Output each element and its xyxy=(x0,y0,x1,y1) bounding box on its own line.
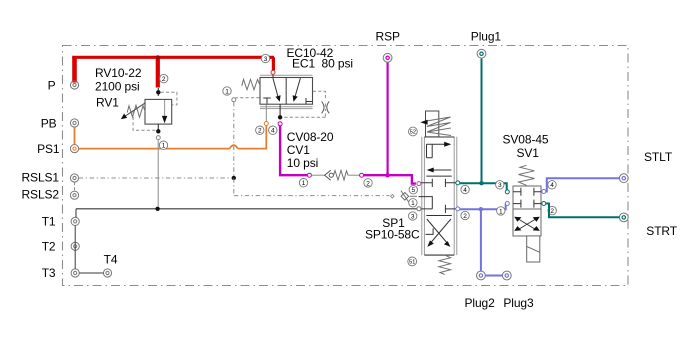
pin 5 of SP1 xyxy=(409,186,417,195)
svg-text:T3: T3 xyxy=(42,266,56,280)
port PB xyxy=(70,119,78,127)
svg-text:Plug1: Plug1 xyxy=(471,29,502,43)
svg-text:1: 1 xyxy=(162,143,166,150)
SP1 pilot cap and spring (top) xyxy=(420,111,451,137)
svg-text:RV1: RV1 xyxy=(96,96,119,110)
SP1 middle position: blocked 5,4,2 and 1-3 path xyxy=(417,179,457,213)
svg-text:2: 2 xyxy=(162,76,166,83)
pin 4 of SP1 xyxy=(461,185,469,194)
wire: RV1 drain to tank xyxy=(157,140,159,207)
svg-text:T2: T2 xyxy=(42,240,56,254)
pin 2 of SP1 xyxy=(461,211,469,220)
node: purple junction xyxy=(479,207,483,211)
port STLT xyxy=(619,174,628,183)
svg-text:SV08-45: SV08-45 xyxy=(503,132,549,146)
svg-text:Plug3: Plug3 xyxy=(503,296,534,310)
SP1 port markers xyxy=(417,181,460,211)
wire: magenta CV1 port2 to SP1 port 5 xyxy=(364,175,416,183)
port T1 xyxy=(71,217,79,225)
svg-text:SP10-58C: SP10-58C xyxy=(365,227,420,241)
node: tank junction at RV1 drain xyxy=(155,207,159,211)
svg-text:3: 3 xyxy=(498,182,502,189)
label RV1 values xyxy=(95,66,142,110)
port RSLS2 xyxy=(70,191,78,199)
SP1 top position: crossover arrows xyxy=(427,142,452,173)
svg-text:2: 2 xyxy=(463,213,467,220)
svg-text:2100 psi: 2100 psi xyxy=(95,79,140,93)
relief valve RV1 xyxy=(121,88,177,140)
port T4 xyxy=(103,269,111,277)
wire: magenta EC1 port 4 to CV1 xyxy=(280,126,307,175)
node: small diamond marker on pilot line xyxy=(391,195,395,199)
label SV1 xyxy=(503,132,549,160)
solenoid valve SV1 (SV08-45) xyxy=(505,165,546,262)
svg-text:1: 1 xyxy=(302,180,306,187)
node: red bus junction at RV1 drop xyxy=(156,55,160,59)
svg-text:3: 3 xyxy=(264,56,268,63)
svg-text:RSP: RSP xyxy=(376,29,400,43)
svg-text:Plug2: Plug2 xyxy=(465,296,496,310)
svg-text:51: 51 xyxy=(409,260,415,266)
svg-text:4: 4 xyxy=(550,182,554,189)
port RSLS1 xyxy=(70,174,78,182)
svg-text:5: 5 xyxy=(411,187,415,194)
wire: pilot line to SP1 port 1 (dashed) xyxy=(234,195,390,197)
wire: teal Plug1 drop xyxy=(481,59,483,184)
SP1 bottom position: crossed arrows xyxy=(426,219,451,247)
port PS1 xyxy=(70,145,78,153)
wire: purple Plug2 riser xyxy=(480,209,482,271)
svg-text:2: 2 xyxy=(258,128,262,135)
svg-text:2: 2 xyxy=(550,208,554,215)
svg-text:EC1 80 psi: EC1 80 psi xyxy=(292,56,353,70)
manifold boundary (dash-dot border) xyxy=(63,46,629,286)
wire: purple SV1 port 4 to STLT xyxy=(546,178,620,191)
wire: RSLS1 pilot line (dashed) to junction xyxy=(79,177,232,179)
port T3 xyxy=(71,269,79,277)
check valve CV1 (CV08-20) xyxy=(307,170,363,180)
port Plug1 xyxy=(477,49,486,58)
wire: magenta RSP drop xyxy=(387,63,389,176)
svg-text:RSLS2: RSLS2 xyxy=(21,187,59,201)
wire: teal SV1 port 2 to STRT xyxy=(546,204,620,218)
svg-text:PB: PB xyxy=(41,116,57,130)
wire: RSLS1 to RSLS2 stub (dashed) xyxy=(74,182,76,191)
svg-text:1: 1 xyxy=(499,208,503,215)
pin 2 of SV1 xyxy=(548,206,556,215)
port T2 xyxy=(71,242,79,250)
node: pilot junction RSLS1 / EC1 pilot xyxy=(232,176,236,180)
spool valve SP1 (SP10-58C) body rails xyxy=(422,137,457,255)
node: magenta junction at RSP xyxy=(385,173,390,178)
pin 3 of SV1 xyxy=(496,181,504,190)
pin 2 of EC1 xyxy=(256,126,264,135)
pin 1 of SP1 xyxy=(409,199,417,208)
svg-text:52: 52 xyxy=(410,130,416,136)
label EC1 values xyxy=(287,46,353,70)
svg-text:SV1: SV1 xyxy=(517,146,540,160)
wire: teal SP1 port 4 to SV1 port 3 xyxy=(460,183,507,190)
pin 1 of CV1 xyxy=(299,179,307,188)
svg-text:RSLS1: RSLS1 xyxy=(21,170,59,184)
svg-text:CV1: CV1 xyxy=(287,143,310,157)
svg-text:10 psi: 10 psi xyxy=(287,156,318,170)
svg-text:T4: T4 xyxy=(104,253,118,267)
svg-text:RV10-22: RV10-22 xyxy=(95,66,142,80)
pin 3 of SP1 xyxy=(409,212,417,221)
svg-text:PS1: PS1 xyxy=(37,142,60,156)
wire: orange PB to PS1 xyxy=(74,127,76,144)
pin 52 of SP1 xyxy=(409,127,418,136)
solenoid valve EC1 (EC10-42) xyxy=(232,70,329,125)
svg-text:STRT: STRT xyxy=(646,224,677,238)
svg-text:T1: T1 xyxy=(42,215,56,229)
port STRT xyxy=(619,213,628,222)
pin 4 of SV1 xyxy=(548,181,556,190)
svg-text:P: P xyxy=(48,78,56,92)
label CV1 values xyxy=(287,130,334,170)
wire: orange PS1 to EC1 port 2 (with hop over pilot line) xyxy=(79,126,267,150)
node: teal junction xyxy=(479,181,483,185)
pin 4 of EC1 xyxy=(269,126,277,135)
port Plug2 xyxy=(477,271,486,280)
svg-text:1: 1 xyxy=(411,200,415,207)
orifice D1 on pilot line to SP1 xyxy=(401,191,417,203)
pin 1 of SV1 xyxy=(497,207,505,216)
svg-text:3: 3 xyxy=(411,213,415,220)
wire: red pressure bus from P xyxy=(72,57,274,87)
wire: purple SP1 port 2 to SV1 port 1 xyxy=(460,204,506,210)
SP1 spring (bottom) xyxy=(439,255,451,274)
label SP1 xyxy=(365,216,420,241)
svg-text:4: 4 xyxy=(271,128,275,135)
pin 2 of RV1 xyxy=(160,74,168,83)
pin 3 of EC1 xyxy=(261,54,269,63)
wire: tank line T1 to SP1 port 3 xyxy=(76,209,417,218)
wire: T1-T2-T3 connector xyxy=(74,226,76,269)
pin 1 of EC1 xyxy=(223,87,231,96)
port P xyxy=(70,81,78,89)
port RSP xyxy=(383,53,392,62)
svg-text:4: 4 xyxy=(463,187,467,194)
pin 2 of CV1 xyxy=(364,179,372,188)
wire: T3 to T4 xyxy=(79,272,103,274)
svg-text:STLT: STLT xyxy=(644,150,673,164)
pin 51 of SP1 xyxy=(408,257,417,266)
svg-text:2: 2 xyxy=(366,180,370,187)
svg-text:1: 1 xyxy=(225,88,229,95)
wire: EC1 pilot drop (dashed vertical) xyxy=(233,102,235,196)
port Plug3 xyxy=(502,271,511,280)
pin 1 of RV1 xyxy=(159,141,167,150)
wire: purple Plug2 to Plug3 xyxy=(485,275,502,277)
